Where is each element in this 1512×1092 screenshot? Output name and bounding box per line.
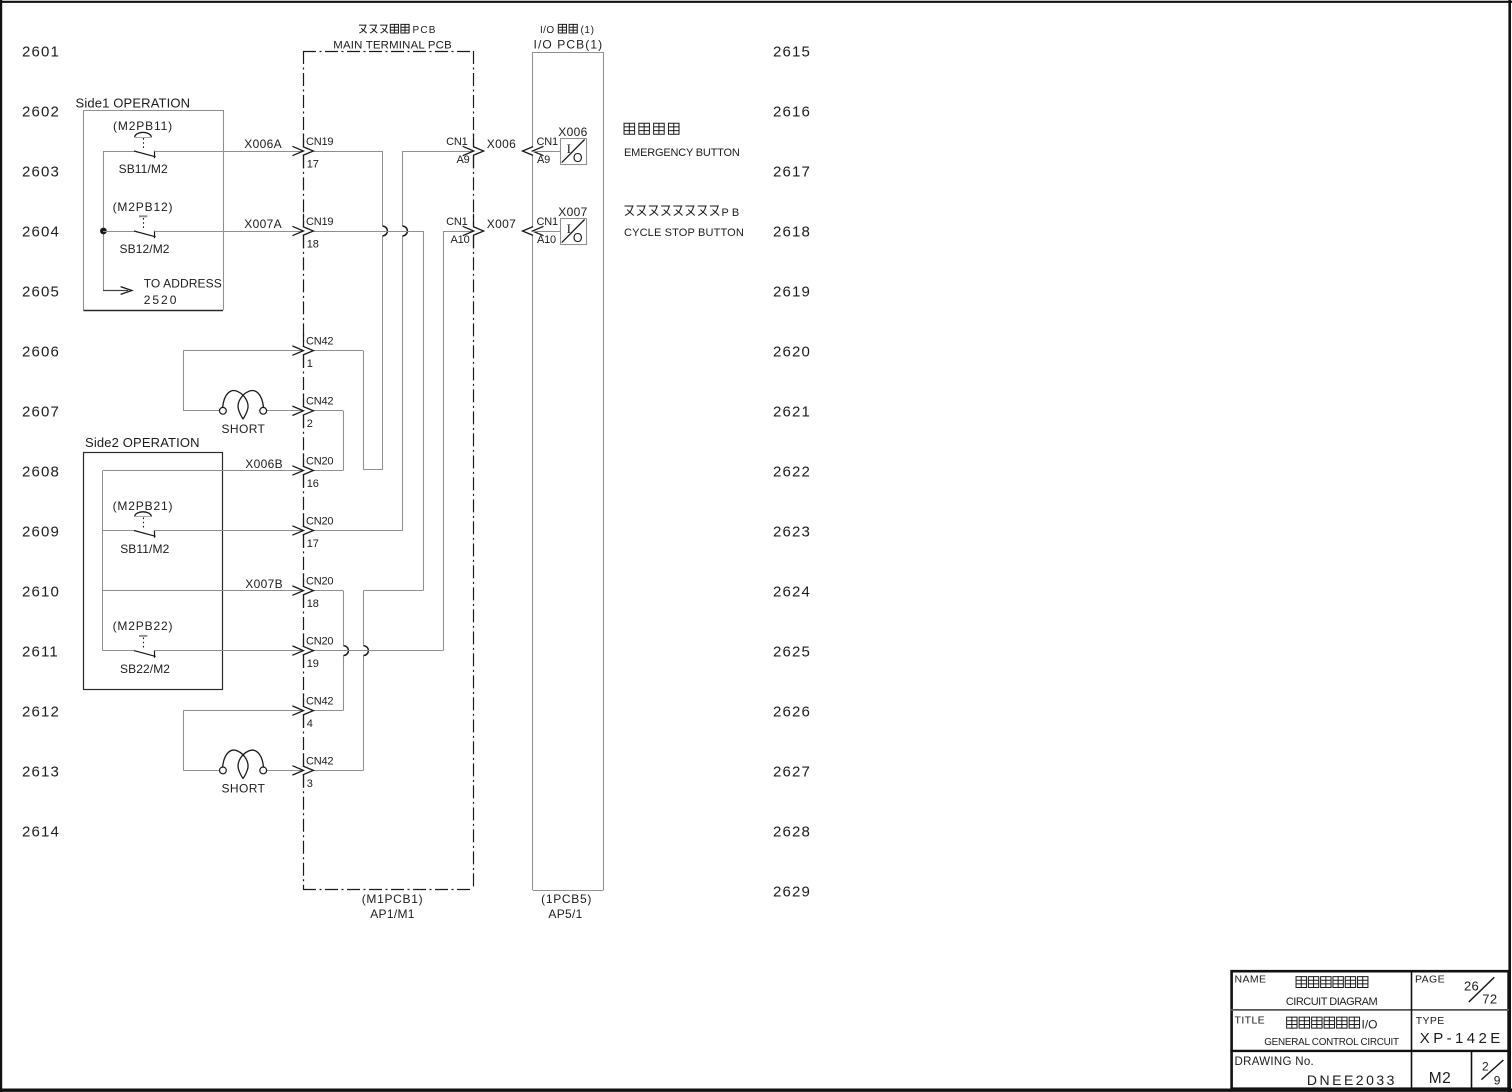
- wire X007B row CN20/18: [103, 590, 303, 592]
- svg-text:4: 4: [307, 718, 313, 730]
- svg-text:1: 1: [307, 358, 313, 370]
- wire SB21 row left stub: [103, 530, 134, 532]
- svg-text:I/O PCB(1): I/O PCB(1): [534, 38, 604, 52]
- svg-text:3: 3: [307, 778, 313, 790]
- Side1 OPERATION box: [83, 110, 223, 112]
- svg-text:26: 26: [1464, 979, 1479, 994]
- svg-text:TITLE: TITLE: [1235, 1014, 1266, 1026]
- wire vertical x=343.2 CN42/2 down to CN20/16: [343, 411, 345, 471]
- svg-text:CN20: CN20: [306, 636, 333, 648]
- wire vertical x=363.4 down to CN42/3 (hop gap at CN20/19): [363, 591, 365, 646]
- wire hop: x=402.9 over X007A: [403, 226, 408, 236]
- svg-text:2610: 2610: [22, 583, 60, 600]
- svg-text:A10: A10: [451, 234, 470, 246]
- connector CN20 pin 18 (arrow into MAIN TERMINAL PCB): [292, 586, 303, 595]
- svg-text:MAIN TERMINAL PCB: MAIN TERMINAL PCB: [333, 40, 452, 52]
- svg-text:X007: X007: [558, 205, 587, 219]
- label 電気回路線図 (fake glyphs): [1296, 977, 1306, 988]
- wire CN42/1 right segment: [314, 350, 364, 352]
- svg-text:(1): (1): [581, 25, 595, 36]
- dash-dot right edge x=473.3 with connector gaps: [473, 51, 475, 147]
- svg-text:PB: PB: [722, 207, 743, 219]
- connector CN20 pin 17 (arrow into MAIN TERMINAL PCB): [292, 526, 303, 535]
- svg-text:2626: 2626: [773, 703, 811, 720]
- mushroom head of emergency button M2PB11: [135, 132, 152, 137]
- wire CN42/3 right segment: [314, 770, 364, 772]
- svg-text:SB22/M2: SB22/M2: [120, 662, 170, 676]
- svg-text:I/O: I/O: [1362, 1018, 1378, 1032]
- svg-text:Side2 OPERATION: Side2 OPERATION: [85, 435, 200, 450]
- push-button switch SB11/M2 (Side2, M2PB21): [134, 531, 156, 537]
- svg-text:CN20: CN20: [306, 455, 333, 467]
- svg-text:18: 18: [307, 598, 319, 610]
- svg-text:2612: 2612: [22, 703, 60, 720]
- svg-text:2611: 2611: [22, 643, 59, 660]
- I/O input symbol X006 (emergency button input): [533, 151, 560, 153]
- svg-text:AP1/M1: AP1/M1: [370, 907, 415, 921]
- shorting plug SHORT (CN42 1-2): [220, 407, 227, 414]
- svg-text:2603: 2603: [22, 163, 60, 180]
- svg-text:2619: 2619: [773, 283, 811, 300]
- svg-text:CN1: CN1: [446, 136, 467, 148]
- svg-text:2604: 2604: [22, 223, 60, 240]
- svg-text:(M1PCB1): (M1PCB1): [362, 892, 424, 906]
- svg-text:2616: 2616: [773, 103, 811, 120]
- push-button stem (dotted): [143, 218, 145, 230]
- svg-text:CN1: CN1: [537, 136, 558, 148]
- connector CN42 pin 1 (arrow into MAIN TERMINAL PCB): [292, 346, 303, 355]
- push-button stem (dotted): [143, 638, 145, 650]
- svg-text:(M2PB22): (M2PB22): [113, 619, 174, 633]
- wire X007A to CN19/18 connector: [154, 231, 303, 233]
- dash-dot top edge: [303, 51, 473, 53]
- svg-text:PAGE: PAGE: [1415, 974, 1445, 986]
- svg-text:2613: 2613: [22, 763, 60, 780]
- wire jog at y=470 joining CN42/1 drop: [363, 469, 383, 471]
- svg-text:X006: X006: [487, 137, 516, 151]
- label サイクルストップPB (fake glyphs): [624, 206, 633, 216]
- svg-text:2520: 2520: [144, 293, 179, 307]
- label 非常停止 (fake glyphs): [624, 123, 635, 134]
- svg-text:SHORT: SHORT: [222, 782, 266, 796]
- svg-text:CYCLE STOP BUTTON: CYCLE STOP BUTTON: [624, 227, 744, 239]
- connector CN42 pin 4 (arrow into MAIN TERMINAL PCB): [292, 706, 303, 715]
- connector CN42 pin 3 (arrow into MAIN TERMINAL PCB): [292, 766, 303, 775]
- svg-text:(M2PB12): (M2PB12): [113, 200, 174, 214]
- svg-text:2606: 2606: [22, 343, 60, 360]
- svg-text:AP5/1: AP5/1: [548, 907, 582, 921]
- push-button switch SB12/M2 (NC blade): [134, 231, 156, 237]
- svg-text:SB11/M2: SB11/M2: [120, 542, 169, 556]
- wire hop: x=343.2 over CN20/19: [344, 646, 349, 656]
- wire vertical x=402.9 X006 line down to CN20/17 (hop gap at X007A): [402, 151, 404, 226]
- connector CN42 pin 2 (arrow into MAIN TERMINAL PCB): [292, 406, 303, 415]
- wire vertical x=183.3 CN42/4 to CN42/3: [183, 711, 185, 771]
- wire shorting plug to CN42/3 connector: [267, 770, 303, 772]
- svg-text:Side1 OPERATION: Side1 OPERATION: [76, 96, 191, 111]
- svg-text:2627: 2627: [773, 763, 811, 780]
- wire CN42/4 left segment: [183, 710, 303, 712]
- wire CN42/2 left segment to shorting plug: [183, 410, 219, 412]
- wire X007 row: vertical top to CN1/A10 connector: [443, 231, 473, 233]
- svg-text:I/O: I/O: [540, 25, 555, 36]
- svg-text:DNEE2033: DNEE2033: [1307, 1072, 1397, 1088]
- svg-text:NAME: NAME: [1235, 974, 1267, 986]
- svg-text:2: 2: [1482, 1059, 1489, 1073]
- connector CN1 pin A10 (on I/O PCB edge): [533, 226, 544, 235]
- wire X006 row: vertical top to CN1/A9 connector: [403, 151, 473, 153]
- dash-dot bottom edge: [303, 889, 473, 891]
- shorting plug SHORT (CN42 4-3): [220, 767, 227, 774]
- svg-text:2601: 2601: [22, 43, 60, 60]
- svg-text:CN20: CN20: [306, 515, 333, 527]
- wire hop: x=363.4 over CN20/19: [364, 646, 369, 656]
- svg-text:A9: A9: [456, 154, 469, 166]
- title block dividers: [1230, 1009, 1509, 1011]
- connector CN20 pin 19 (arrow into MAIN TERMINAL PCB): [292, 646, 303, 655]
- svg-text:2629: 2629: [773, 883, 811, 900]
- svg-text:2617: 2617: [773, 163, 811, 180]
- svg-text:17: 17: [307, 538, 319, 550]
- svg-text:TO ADDRESS: TO ADDRESS: [144, 277, 222, 291]
- svg-text:2609: 2609: [22, 523, 60, 540]
- svg-text:9: 9: [1494, 1073, 1501, 1087]
- wire hop: x=382.7 over X007A: [383, 226, 388, 236]
- svg-text:O: O: [573, 231, 583, 245]
- connector CN20 pin 16 (arrow into MAIN TERMINAL PCB): [292, 466, 303, 475]
- wire CN20/17 right segment to vertical x=402.9: [314, 530, 403, 532]
- svg-text:X007A: X007A: [244, 217, 282, 231]
- svg-text:CN20: CN20: [306, 576, 333, 588]
- svg-text:X006A: X006A: [244, 137, 282, 151]
- wire vertical x=343.2 CN20/18 down to CN42/4 (hop gap at CN20/19): [343, 591, 345, 646]
- svg-text:XP-142E: XP-142E: [1420, 1030, 1504, 1047]
- wire jog at y=590.6 to CN42/3 drop: [363, 590, 423, 592]
- svg-text:CN42: CN42: [306, 396, 333, 408]
- svg-text:A9: A9: [537, 154, 550, 166]
- svg-text:SB11/M2: SB11/M2: [119, 162, 168, 176]
- svg-text:M2: M2: [1429, 1070, 1452, 1087]
- wire vertical x=183.3 CN42/1 to CN42/2: [183, 351, 185, 411]
- svg-text:2: 2: [307, 418, 313, 430]
- svg-text:72: 72: [1482, 991, 1497, 1006]
- connector CN19 pin 18 (arrow into MAIN TERMINAL PCB): [292, 226, 303, 235]
- svg-text:X007: X007: [487, 217, 516, 231]
- wire X006A to CN19/17 connector: [154, 151, 303, 153]
- svg-text:SHORT: SHORT: [222, 422, 266, 436]
- svg-text:PCB: PCB: [413, 25, 437, 36]
- sheet fraction slash: [1481, 1060, 1503, 1080]
- push-button switch SB11/M2 (NC blade): [134, 151, 156, 157]
- svg-text:X006B: X006B: [245, 457, 283, 471]
- push-button stem (dotted): [143, 518, 145, 530]
- svg-text:I: I: [567, 221, 571, 236]
- svg-text:CN1: CN1: [537, 216, 558, 228]
- dash-dot left edge x=303 with connector gaps: [303, 51, 305, 147]
- wire SB21 row to CN20/17: [154, 530, 303, 532]
- svg-text:16: 16: [307, 478, 319, 490]
- connector CN1 pin A9 (on I/O PCB edge): [533, 146, 544, 155]
- svg-text:2624: 2624: [773, 583, 811, 600]
- wire X006A: CN19/17 to vertical drop x=382.7: [314, 151, 383, 153]
- TO ADDRESS 2520 arrow: [103, 290, 128, 292]
- page fraction slash: [1469, 977, 1495, 1002]
- svg-text:CN42: CN42: [306, 696, 333, 708]
- svg-text:2602: 2602: [22, 103, 60, 120]
- svg-text:2622: 2622: [773, 463, 811, 480]
- wire SB22 row left stub: [103, 650, 134, 652]
- wire CN20/16 right segment: [314, 470, 344, 472]
- wire CN20/18 right segment: [314, 590, 344, 592]
- svg-text:2621: 2621: [773, 403, 811, 420]
- svg-text:19: 19: [307, 658, 319, 670]
- I/O input symbol X007 (cycle stop input): [533, 231, 560, 233]
- svg-text:(1PCB5): (1PCB5): [541, 892, 592, 906]
- svg-text:A10: A10: [537, 234, 556, 246]
- wire shorting plug to CN42/2 connector: [267, 410, 303, 412]
- svg-text:TYPE: TYPE: [1416, 1015, 1445, 1027]
- wire X007A: CN19/18 to vertical drop x=423.3: [314, 231, 424, 233]
- svg-text:SB12/M2: SB12/M2: [120, 242, 170, 256]
- wire X006A left stub: [103, 151, 134, 153]
- push-button stem (dotted): [143, 138, 145, 150]
- svg-text:2620: 2620: [773, 343, 811, 360]
- wire CN42/2 right segment: [314, 410, 344, 412]
- node junction dot on X007A branch: [100, 228, 107, 235]
- I/O box left edge with connector gaps: [532, 52, 534, 147]
- page border frame: [0, 1, 1512, 3]
- svg-text:2615: 2615: [773, 43, 811, 60]
- wire SB22 row to CN20/19: [154, 650, 303, 652]
- svg-text:O: O: [573, 151, 583, 165]
- svg-text:2607: 2607: [22, 403, 60, 420]
- flat head of push button M2PB22: [139, 635, 147, 637]
- wire X006B row CN20/16: [103, 470, 303, 472]
- svg-text:2618: 2618: [773, 223, 811, 240]
- svg-text:2625: 2625: [773, 643, 811, 660]
- label 総合制御回路I/O (fake glyphs): [1287, 1017, 1297, 1028]
- svg-text:2614: 2614: [22, 823, 60, 840]
- svg-text:I: I: [567, 141, 571, 156]
- svg-text:2623: 2623: [773, 523, 811, 540]
- svg-text:2605: 2605: [22, 283, 60, 300]
- wire CN20/19 right segment to vertical x=443: [314, 650, 443, 652]
- svg-text:DRAWING No.: DRAWING No.: [1235, 1056, 1315, 1068]
- svg-text:2628: 2628: [773, 823, 811, 840]
- wire vertical x=443 X007 line down to CN20/19: [443, 231, 445, 651]
- svg-text:CN1: CN1: [446, 216, 467, 228]
- svg-text:(M2PB11): (M2PB11): [113, 119, 173, 133]
- svg-text:CN42: CN42: [306, 755, 333, 767]
- wire X007A left stub: [103, 231, 134, 233]
- wire vertical x=423.3 X007A down to y=590.6: [423, 231, 425, 591]
- svg-text:X006: X006: [558, 125, 587, 139]
- connector CN1 pin A9 (into I/O interconnect): [463, 146, 474, 155]
- connector CN19 pin 17 (arrow into MAIN TERMINAL PCB): [292, 146, 303, 155]
- svg-text:CN19: CN19: [306, 216, 333, 228]
- wire CN42/1 left segment to loop: [183, 350, 303, 352]
- flat head of push button M2PB12: [139, 215, 147, 217]
- svg-text:18: 18: [307, 238, 319, 250]
- title block outer frame: [1232, 971, 1509, 1088]
- I/O PCB(1) box (1PCB5 AP5/1): [533, 52, 604, 54]
- wire Side2 branch vertical x=102.8: [102, 471, 104, 651]
- mushroom head of emergency button M2PB21: [135, 512, 152, 517]
- svg-text:GENERAL CONTROL CIRCUIT: GENERAL CONTROL CIRCUIT: [1264, 1037, 1399, 1048]
- svg-text:2608: 2608: [22, 463, 60, 480]
- wire CN42/4 right segment: [314, 710, 344, 712]
- svg-text:X007B: X007B: [245, 577, 283, 591]
- wire Side1 branch vertical x=103: [103, 151, 105, 291]
- svg-text:(M2PB21): (M2PB21): [113, 499, 174, 513]
- wire vertical x=363.2 CN42/1 down to jog: [363, 351, 365, 470]
- svg-text:17: 17: [307, 158, 319, 170]
- wire vertical x=382.7 X006A down to jog y=470 (hop gap at X007A): [382, 151, 384, 226]
- connector CN1 pin A10 (into I/O interconnect): [463, 226, 474, 235]
- label メイン中継PCB (fake glyphs): [359, 25, 367, 33]
- svg-text:EMERGENCY BUTTON: EMERGENCY BUTTON: [624, 147, 740, 159]
- svg-text:CN19: CN19: [306, 136, 333, 148]
- wire CN42/3 left segment to shorting plug: [183, 770, 219, 772]
- svg-text:CIRCUIT DIAGRAM: CIRCUIT DIAGRAM: [1286, 996, 1378, 1008]
- push-button switch SB22/M2 (M2PB22): [134, 651, 156, 657]
- Side2 OPERATION box: [84, 453, 223, 690]
- svg-text:CN42: CN42: [306, 336, 333, 348]
